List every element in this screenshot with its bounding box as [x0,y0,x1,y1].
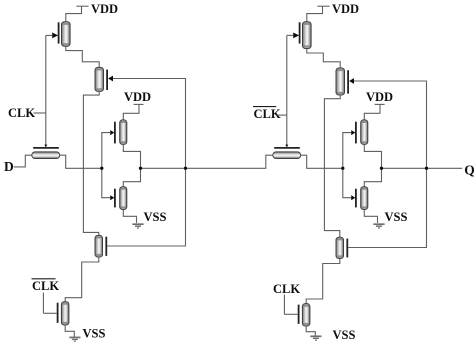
svg-text:D: D [4,159,14,174]
svg-text:VDD: VDD [91,2,118,16]
wire CLK label lead [34,112,46,114]
wire M4 source to VSS [123,210,136,223]
overline for CLKbar master [32,278,56,280]
svg-text:CLK: CLK [8,106,35,120]
wire clock line vertical stage 2 [285,35,288,147]
transistor M6 (clocked pull-down) [58,302,69,325]
junction slave inverter input [341,167,344,170]
transistor M10 (inverter NMOS) [351,187,368,210]
junction master output node [139,167,142,170]
transistor TG2 (pass gate) [273,148,301,159]
wire M8 source down-link [324,95,340,237]
junction slave output node [380,167,383,170]
wire M6 gate lead [43,312,56,314]
wire M3 drain to output node [123,144,140,186]
svg-text:VDD: VDD [332,2,359,16]
wire M1 gate lead [46,34,53,36]
wire inverter input gates stage 1 [102,133,110,198]
junction master feedback tap [184,167,187,170]
node VDD (rail, stage 1) [66,6,89,22]
svg-text:CLK: CLK [273,282,300,296]
svg-text:CLK: CLK [254,107,281,121]
wire M7 gate lead [287,34,294,36]
wire bottom clock label drop stage 2 [283,295,285,315]
wire M1 drain stair to M2 [66,46,99,67]
label VDD inner stage 2 [366,90,393,104]
label CLK (master top) [8,106,35,120]
label Q output [464,163,474,178]
transistor M11 (feedback pull-down, gate on right) [336,237,347,258]
transistor TG1 (pass gate) [32,148,60,159]
wire inverter input gates stage 2 [343,133,351,198]
overline for CLKbar slave [253,106,276,108]
label D input [4,159,14,174]
transistor M12 (clocked pull-down) [299,304,310,326]
transistor M1 (clocked pull-up, gate bar + arrow) [52,22,70,46]
wire clock line vertical stage 1 [44,35,47,147]
svg-text:VDD: VDD [124,90,151,104]
wire M2 source down-link [83,91,99,235]
wire TG1 output to master inverter input [60,155,102,168]
wire M12 gate lead [284,313,297,315]
svg-text:VSS: VSS [333,328,356,342]
node VDD (inner, stage 1) [123,104,143,120]
transistor M7 (clocked pull-up, gate bar + arrow) [293,22,311,49]
junction master inverter input [100,167,103,170]
label VDD inner stage 1 [124,90,151,104]
svg-text:VDD: VDD [366,90,393,104]
transistor M3 (inverter PMOS) [110,120,127,144]
wire slave inverter output to Q [382,167,463,169]
wire M10 source to VSS [364,210,377,223]
label VSS inner stage 1 [144,210,167,224]
wire M11 source down-link [306,259,340,304]
wire D input lead [14,155,32,167]
label VSS bottom stage 1 [83,326,106,340]
wire TG2 output to slave inverter input [301,155,343,168]
ground VSS inner stage 2 [373,224,384,228]
svg-text:VSS: VSS [385,210,408,224]
ground VSS bottom stage 2 [310,336,321,340]
label CLKbar (slave top) with overline [254,107,281,121]
wire master inverter output to TG2 [141,155,273,168]
svg-text:VSS: VSS [144,210,167,224]
label CLK (slave bottom) [273,282,300,296]
label CLKbar (master bottom) with overline [32,279,59,293]
wire CLKbar slave label lead [276,114,287,116]
ground VSS inner stage 1 [132,224,143,228]
wire M7 drain stair to M8 [307,49,340,69]
label VDD top stage 1 [91,2,118,16]
wire M5 source down-link [65,257,99,302]
transistor M5 (feedback pull-down, gate on right) [95,235,106,257]
ground VSS bottom stage 1 [69,337,80,341]
svg-text:CLK: CLK [32,279,59,293]
label VSS inner stage 2 [385,210,408,224]
transistor M8 (feedback pull-up, gate on right) [336,68,354,95]
wire M6 source to VSS [65,325,74,337]
label VDD top stage 2 [332,2,359,16]
transistor M9 (inverter PMOS) [351,120,368,144]
transistor M2 (feedback pull-up, gate on right) [95,67,113,91]
svg-text:Q: Q [464,163,474,178]
junction slave feedback tap [425,167,428,170]
label VSS bottom stage 2 [333,328,356,342]
wire M2 gate to feedback net [107,79,185,247]
wire bottom clock label drop stage 1 [42,293,44,314]
wire M8 gate to feedback net [348,81,426,248]
node VDD (rail, stage 2) [307,6,330,22]
svg-text:VSS: VSS [83,326,106,340]
transistor M4 (inverter NMOS) [110,187,127,210]
wire M12 source to VSS [306,326,315,336]
wire M9 drain to output node [364,144,381,186]
node VDD (inner, stage 2) [364,104,384,120]
